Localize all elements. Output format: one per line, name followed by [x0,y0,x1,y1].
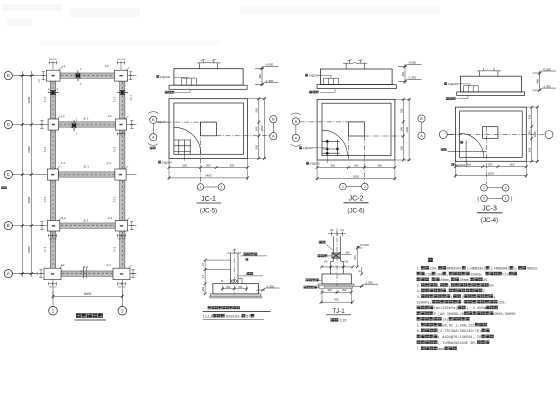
svg-text:150 150: 150 150 [49,59,57,61]
svg-text:J-1: J-1 [107,263,111,267]
JC-3 plan: vertical axis line [486,127,488,185]
svg-text:), 3 4: ), 3 4 [466,306,479,311]
svg-text:( A194@76/140594, CU: ( A194@76/140594, CU [438,335,481,340]
JC-1 right dim chain [258,99,260,159]
JC-1 right axis bubbles B/A [270,116,277,123]
JC-1 plan: column [201,122,217,136]
svg-text:6000: 6000 [27,96,31,103]
JC-3 right axis bubble [545,131,553,139]
svg-text:),: ), [514,267,518,272]
svg-text:25: 25 [483,279,487,283]
JC-2 plan: outer edge [317,99,395,160]
svg-text:50: 50 [489,285,493,289]
bottom dimension 8400 [53,295,122,297]
footing AR [113,268,130,279]
JC-3 plan: outer edge [455,107,526,161]
JC-3 bottom dim chain [455,166,526,168]
JC-3 plan: rebar label left [441,148,447,151]
depth detail: column lines [229,253,231,284]
JC-2 plan: step edge [322,103,391,155]
svg-text:): ) [511,197,513,203]
vertical foundation beams [50,81,55,119]
JC-3 left axis bubble [439,131,447,139]
svg-text:300: 300 [528,130,532,135]
svg-text:3.: 3. [417,290,421,294]
svg-text:1: 1 [200,185,202,189]
TJ-1: bottom elevation [355,285,364,287]
JC-2 section: bedding label [309,91,319,94]
svg-text:1500: 1500 [488,171,495,175]
footing CR [115,169,126,180]
svg-text:1: 1 [483,186,485,190]
JC-2 plan: vertical axis lines [347,136,349,160]
JC-1 plan: outer edge [169,99,248,159]
svg-text:TJ-1: TJ-1 [112,96,116,102]
JC-1 plan: rebar grid [178,140,180,155]
svg-text:J-4: J-4 [61,65,65,69]
section mark 1-1 on beam E [77,70,79,81]
svg-text:TJ-1: TJ-1 [43,146,47,152]
svg-text:300: 300 [238,286,243,289]
svg-text:-0.050: -0.050 [543,67,552,71]
svg-text:8@200: 8@200 [158,120,167,124]
svg-text:(JC-6): (JC-6) [347,208,364,215]
svg-text:L1,L2: L1,L2 [203,313,214,318]
svg-text:J-4: J-4 [107,161,111,165]
JC-1 plan: axis A line [216,135,269,137]
depth detail: centerline [233,249,235,295]
JC-2 plan: rebar label bottom-left [306,162,309,165]
left dimension chain [21,71,23,277]
plan small labels [1,59,135,289]
svg-text:TJ-1: TJ-1 [112,246,116,252]
JC-2 plan: column [348,122,364,136]
JC-1 bottom axis bubbles 1 2 [197,184,204,191]
axis bubble 2 [118,306,127,315]
svg-text:1200: 1200 [533,131,537,137]
svg-text:57: 57 [246,313,251,318]
svg-text:C15: C15 [502,273,508,277]
depth detail: second label [246,258,249,261]
svg-text:E: E [7,73,10,78]
JC-1 plan: rebar label bottom-left [158,161,161,164]
axis bubble E [4,72,12,80]
TJ-1: step dim line [322,266,353,268]
svg-text:6000: 6000 [27,246,31,253]
svg-text:1400: 1400 [205,174,212,178]
svg-text:mm#: mm# [438,348,445,352]
svg-text:1: 1 [342,185,344,189]
svg-text:100: 100 [436,273,442,277]
JC-1 plan: axis B line [157,121,216,123]
axis bubble C [4,170,12,178]
svg-text:2: 2 [483,290,485,294]
depth detail: caption line 1 [208,306,240,309]
footing BR [115,221,127,232]
svg-text:150 150: 150 150 [49,287,57,289]
svg-text:,: , [447,290,449,294]
svg-text:1.5: 1.5 [202,262,205,266]
TJ-1: step 2 [330,267,332,274]
depth detail: bedding [210,294,261,296]
JC-3 section: footing block [460,76,521,92]
depth detail: left dims [204,260,206,284]
JC-3 section: bedding [457,92,525,96]
JC-2 bottom axis bubbles 1 2 [340,183,347,190]
svg-text:-1.350: -1.350 [365,281,374,285]
svg-text:kPa: kPa [479,306,486,311]
svg-text:150 150: 150 150 [118,239,126,241]
footing BL [47,221,59,232]
svg-text:450: 450 [528,114,532,119]
svg-text:600: 600 [467,163,472,167]
axis bubble 1 [49,306,58,315]
svg-text:2000,30000: 2000,30000 [494,313,516,317]
svg-text:120,: 120, [498,302,507,306]
svg-text:),HRB400(: ),HRB400( [490,267,509,272]
JC-3 plan: column [483,127,498,139]
svg-text:14@200: 14@200 [310,162,321,166]
svg-text:J-4: J-4 [105,64,109,68]
svg-text:300: 300 [255,126,259,131]
svg-text:1400: 1400 [260,125,264,131]
depth detail: footing block [213,284,259,294]
TJ-1: footing body [322,274,351,284]
svg-text:b/2: b/2 [341,229,345,232]
svg-text:550: 550 [255,144,259,149]
JC-3 plan: rebar arc [460,133,484,157]
section mark 1-1 on beam D [73,120,75,131]
svg-text:P (AN 3080BL/N: P (AN 3080BL/N [434,312,464,317]
svg-text:-1.350: -1.350 [265,79,274,83]
TJ-1: right elevation 0.000 [356,247,362,249]
JC-1 section: elevation marks [261,66,263,86]
svg-text:Z-1: Z-1 [108,216,113,220]
JC-1 section: rebar inset [182,78,197,85]
svg-text:TJ-1: TJ-1 [43,196,47,202]
svg-text:6000: 6000 [27,146,31,153]
svg-text:7.: 7. [417,348,421,352]
svg-text:100mm,: 100mm, [470,273,483,277]
grid axis lines [12,75,46,77]
section mark on right vertical beam [117,92,128,94]
JC-2 plan: axis B line [300,121,365,123]
svg-text:TJ-1: TJ-1 [332,308,345,315]
svg-text:14@200: 14@200 [162,160,173,164]
JC-3 section: left rebar label [444,82,447,85]
svg-text:,: , [447,273,449,277]
svg-text:550: 550 [255,108,259,113]
svg-text:1: 1 [505,197,507,201]
TJ-1: wall lines [332,236,334,253]
svg-text:fak=220kPa(: fak=220kPa( [434,306,458,311]
JC-2 bottom dim chain [317,166,395,168]
section mark on left vertical beam [48,92,59,94]
JC-2 left axis bubbles B/A [291,113,301,115]
notes text lines [417,266,538,272]
JC-3 section: bedding label [446,97,456,100]
JC-2 section: rebar inset [324,78,339,84]
svg-text:C: C [7,172,10,177]
svg-text:600: 600 [510,163,515,167]
svg-text:2: 2 [220,185,222,189]
svg-text:JL-1: JL-1 [83,164,89,168]
footing CL [47,169,58,180]
JC-3 section: column stub [479,71,481,76]
JC-3 section: elevation marks [539,71,541,91]
JC-1 section: bedding [169,85,247,89]
JC-3 right dim chain [531,107,533,161]
TJ-1: right dim 240 [341,253,352,255]
depth detail: elevation flag [256,289,265,291]
JC-2 section: column stub [345,63,347,69]
svg-text:8400: 8400 [84,292,92,296]
svg-text:14@200: 14@200 [309,74,320,78]
svg-text:2: 2 [483,197,485,201]
svg-text:HB,9C 1,200,131: HB,9C 1,200,131 [442,324,474,328]
svg-text:-0.050: -0.050 [265,63,274,67]
svg-text:JL-1: JL-1 [83,265,89,269]
svg-text:150 150: 150 150 [117,59,125,61]
svg-text:): ) [462,295,464,300]
TJ-1: right dim chain [356,248,358,267]
horizontal foundation beams [60,73,114,78]
svg-text:220KPa,: 220KPa, [417,302,432,306]
footing AL [44,268,61,279]
depth detail: joint hatch [231,279,238,283]
svg-text:HPB300(: HPB300( [447,267,462,272]
svg-text:240: 240 [346,251,351,254]
JC-2 plan: rebar grid [326,140,328,156]
JC-2 plan: rebar arc [322,130,347,155]
svg-text:4.: 4. [417,296,421,300]
svg-text:D: D [7,122,10,127]
svg-text:650: 650 [330,163,335,167]
svg-text:450: 450 [202,286,205,291]
depth detail: top leader label [244,252,258,255]
svg-text:500: 500 [230,163,235,167]
svg-text:(: ( [451,295,453,300]
svg-text:(: ( [477,197,479,203]
svg-text:JL-1: JL-1 [83,116,89,120]
svg-text:1:20: 1:20 [340,318,347,322]
TJ-1: left labels [306,278,319,281]
svg-text:300: 300 [399,126,403,131]
svg-text:B: B [7,223,10,228]
svg-text:-1.350: -1.350 [543,84,552,88]
JC-2 section: footing block [320,69,392,85]
vertical axis line 1 [52,280,54,307]
footing ER [114,70,127,81]
svg-text:(JC-4): (JC-4) [481,217,498,224]
axis bubble D [4,120,12,128]
svg-text:A: A [7,271,10,276]
JC-2 section: bedding [317,85,396,89]
JC-3 plan: step edge [460,111,523,157]
svg-text:14@200: 14@200 [160,75,171,79]
svg-text:150 150: 150 150 [49,239,57,241]
depth detail: right leader [247,272,254,275]
svg-text:10G101-1: 10G101-1 [225,313,244,318]
svg-text:2: 2 [364,185,366,189]
JC-2 right dim chain [402,99,404,160]
JC-1 section: bedding label [165,91,175,94]
TJ-1: centerline [336,229,338,294]
depth detail: right step [238,277,242,279]
svg-text:TJ-1: TJ-1 [112,146,116,152]
svg-text:TJ-1: TJ-1 [112,196,116,202]
axis bubble B [4,222,12,230]
JC-1 left axis bubbles B/A [148,112,158,114]
footing EL [46,70,60,81]
JC-2 plan: axis A line [364,135,404,137]
svg-text:JC-2: JC-2 [349,195,364,202]
svg-text:TJ-1: TJ-1 [129,95,133,101]
svg-text:(JC-5): (JC-5) [200,207,217,214]
svg-text:6.: 6. [417,330,421,334]
JC-2 section: left rebar label [305,74,308,77]
JC-1 bottom dim chain [169,166,248,168]
svg-text:C30,: C30, [430,268,439,272]
JC-3 far-left axis bubbles B/A [418,115,425,122]
JC-3 bottom axis bubbles row 1 [481,185,488,192]
JC-2 plan: rebar label left [299,146,302,149]
notes header [428,258,433,262]
svg-text:450: 450 [258,74,262,79]
TJ-1: wall below block [332,258,334,261]
svg-text:300: 300 [226,286,231,289]
JC-3 plan: horizontal axis line [448,134,543,136]
svg-text:TJ-1: TJ-1 [43,96,47,102]
svg-text:30mm,: 30mm, [460,279,471,283]
svg-text:J-4: J-4 [108,114,112,118]
svg-text:40025: 40025 [527,268,538,272]
svg-text:J-2: J-2 [62,216,66,220]
svg-text:J-3: J-3 [61,161,65,165]
svg-text:300: 300 [206,163,211,167]
svg-text:b/2: b/2 [330,229,334,232]
svg-text:2: 2 [505,186,507,190]
svg-text:J-3: J-3 [61,115,65,119]
svg-text:5.: 5. [417,324,421,328]
TJ-1: bottom dims [322,291,351,293]
svg-text:40mm,: 40mm, [440,279,451,283]
plan title [76,313,103,318]
svg-text:500: 500 [353,255,357,260]
TJ-1: hatched block [332,253,340,258]
svg-text:(2 70739A/485140/79): (2 70739A/485140/79) [438,329,481,334]
svg-text:1.: 1. [417,268,421,272]
TJ-1: left label C10 [318,254,328,257]
svg-text:JC-1: JC-1 [201,196,216,203]
TJ-1: step 1 [331,260,334,262]
depth detail: inner dims 300 300 [222,288,246,290]
TJ-1: bedding [318,284,354,286]
JC-1 section: left rebar label [156,75,159,78]
svg-text:-: - [462,302,464,306]
svg-text:300: 300 [327,288,332,292]
JC-1 section: footing block [174,69,243,86]
JC-1 plan: vertical axis line [200,122,202,184]
JC-1 plan: step edge [174,103,244,154]
JC-3 plan: rebar label bottom-left [452,163,455,166]
svg-text:900: 900 [334,298,339,302]
svg-text:550: 550 [399,146,403,151]
svg-text:JC-3: JC-3 [482,205,497,212]
svg-text:-0.050: -0.050 [408,61,417,65]
svg-text:-1.350: -1.350 [408,76,417,80]
vertical axis line 2 [121,280,123,307]
svg-text:450: 450 [401,71,405,76]
svg-text:14@200: 14@200 [455,163,466,167]
svg-text:,: , [449,285,451,289]
svg-text:C10: C10 [425,273,431,277]
svg-text:-1.350: -1.350 [266,284,275,288]
svg-text:2.: 2. [417,285,421,289]
svg-text:(a): (a) [442,318,448,323]
JC-1 plan: rebar arc [174,127,201,154]
axis bubble A [4,270,12,278]
svg-text:300: 300 [488,163,493,167]
JC-3 plan: rebar leader lines [465,141,467,167]
svg-text:1400: 1400 [405,126,409,132]
svg-text:550: 550 [399,108,403,113]
footing DL [48,119,59,130]
svg-text:300: 300 [354,163,359,167]
svg-text:,: , [438,285,440,289]
svg-text:( 7LMBA29G434E 3M,: ( 7LMBA29G434E 3M, [438,341,477,346]
JC-2 section: elevation marks [404,64,406,84]
svg-text:),HRB335(: ),HRB335( [466,267,485,272]
footing DR [115,119,126,130]
svg-text:±0.000: ±0.000 [360,243,369,247]
TJ-1: top dim b/2 b/2 [328,233,346,235]
svg-text:14@200: 14@200 [448,82,459,86]
svg-text:600: 600 [182,163,187,167]
JC-1 section: column stub [199,63,201,69]
TJ-1: wall leader label [319,241,326,244]
svg-text:450: 450 [536,79,540,84]
svg-text:450: 450 [528,147,532,152]
svg-text:300: 300 [342,288,347,292]
svg-text:1600: 1600 [353,174,360,178]
svg-text:TJ-1: TJ-1 [43,246,47,252]
svg-text:1: 1 [494,296,496,300]
svg-text:150 150: 150 150 [118,287,126,289]
JC-3 plan: rebar label inside [460,141,463,144]
svg-text:14@200: 14@200 [303,146,314,150]
svg-text:650: 650 [377,163,382,167]
svg-text:1.5: 1.5 [202,274,205,278]
svg-text:6000: 6000 [27,196,31,203]
JC-3 section: rebar inset [464,86,479,92]
svg-text:JL-1: JL-1 [83,218,89,222]
